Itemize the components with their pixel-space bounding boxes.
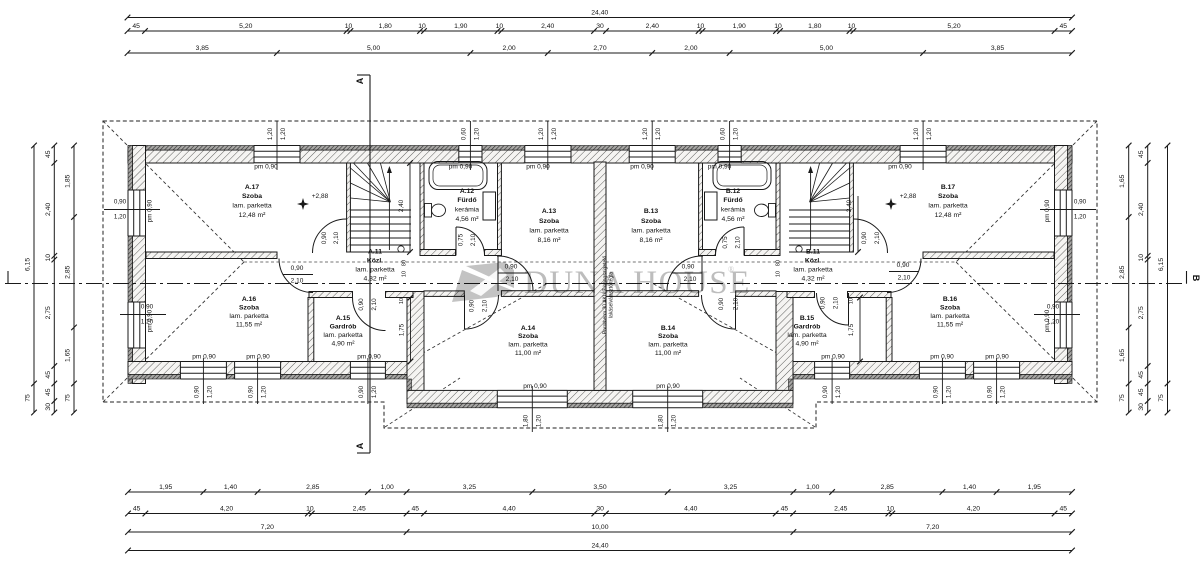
- svg-text:pm 0,90: pm 0,90: [821, 354, 845, 361]
- svg-text:1,40: 1,40: [963, 484, 976, 491]
- svg-text:pm 0,90: pm 0,90: [147, 199, 154, 222]
- wall B.13 east: [699, 163, 703, 256]
- svg-text:Szoba: Szoba: [658, 333, 678, 340]
- window dim bottom A16w1: [202, 358, 204, 404]
- svg-text:1,20: 1,20: [535, 414, 542, 427]
- window dim top A.13: [547, 121, 549, 170]
- svg-text:1,20: 1,20: [671, 414, 678, 427]
- dimension row top segments: [128, 30, 1073, 32]
- dimension row bottom wings: [128, 531, 1072, 533]
- wall A.17-A.16: [146, 252, 277, 259]
- window bath B.12 0,60: [718, 145, 741, 164]
- svg-text:Szoba: Szoba: [242, 193, 262, 200]
- svg-text:2,40: 2,40: [398, 199, 405, 212]
- window dim protrusion B14: [667, 386, 669, 432]
- bath B.12 south wall west part: [699, 250, 716, 256]
- svg-text:lam. parketta: lam. parketta: [508, 342, 548, 349]
- window bath A.12 0,60: [459, 145, 482, 164]
- svg-text:1,20: 1,20: [1074, 214, 1087, 221]
- svg-text:2,40: 2,40: [45, 203, 52, 216]
- svg-text:12,48 m²: 12,48 m²: [239, 212, 267, 219]
- svg-text:lam. parketta: lam. parketta: [928, 203, 968, 210]
- svg-text:Fürdő: Fürdő: [457, 197, 476, 204]
- svg-text:pm 0,90: pm 0,90: [656, 383, 680, 390]
- dimension col right mid: [1147, 146, 1149, 413]
- party wall Porotherm 30: [594, 162, 606, 390]
- dimension row bottom axis: [128, 491, 1072, 493]
- svg-text:10: 10: [45, 254, 52, 262]
- svg-text:1,75: 1,75: [399, 323, 406, 336]
- svg-text:10: 10: [774, 23, 782, 30]
- svg-text:10: 10: [848, 23, 856, 30]
- door A.13: [498, 256, 533, 291]
- exterior wall protrusion south: [407, 390, 793, 403]
- bath A.12 south wall west part: [420, 250, 456, 256]
- svg-text:5,00: 5,00: [367, 45, 380, 52]
- svg-text:pm 0,90: pm 0,90: [985, 354, 1009, 361]
- roof hip dashed protrusion left: [385, 378, 460, 427]
- svg-text:lam. parketta: lam. parketta: [232, 203, 272, 210]
- svg-text:0,90: 0,90: [193, 385, 200, 398]
- svg-text:2,85: 2,85: [1119, 265, 1126, 278]
- dimension row bottom 24,40: [128, 550, 1072, 552]
- window A.17 1,20: [254, 145, 300, 164]
- svg-text:2,10: 2,10: [482, 299, 489, 312]
- door B.13: [667, 256, 702, 291]
- window dim top A.17: [276, 121, 278, 170]
- svg-text:Közl.: Közl.: [367, 258, 383, 265]
- dimension col right inner: [1128, 146, 1130, 413]
- stairs B: [789, 209, 850, 211]
- svg-text:1,20: 1,20: [267, 127, 274, 140]
- svg-text:0,90: 0,90: [897, 262, 910, 269]
- dimension col right outer 6,15: [1167, 146, 1169, 413]
- svg-text:2,85: 2,85: [65, 265, 72, 278]
- insulation bottom right wing: [793, 375, 1072, 380]
- svg-text:4,90 m²: 4,90 m²: [795, 341, 819, 348]
- svg-text:24,40: 24,40: [591, 543, 608, 550]
- bath B.12 south wall east part: [745, 250, 781, 256]
- svg-text:2,10: 2,10: [371, 298, 378, 311]
- window A.13 1,20: [525, 145, 571, 164]
- svg-text:10: 10: [776, 271, 782, 277]
- svg-text:10: 10: [399, 298, 405, 304]
- svg-text:pm 0,90: pm 0,90: [888, 164, 912, 171]
- exterior wall right: [1055, 146, 1068, 384]
- window west upper 1,20: [127, 190, 146, 236]
- svg-text:1,20: 1,20: [913, 127, 920, 140]
- svg-text:4,56 m²: 4,56 m²: [455, 216, 479, 223]
- svg-text:5,00: 5,00: [820, 45, 833, 52]
- gardrob A.15 north wall east part: [386, 292, 414, 298]
- svg-text:2,85: 2,85: [881, 484, 894, 491]
- svg-text:Gardrób: Gardrób: [794, 324, 821, 331]
- roof ridge height dashed line: [244, 261, 956, 263]
- svg-text:45: 45: [45, 388, 52, 396]
- exterior wall left: [133, 146, 146, 384]
- svg-text:30: 30: [596, 506, 604, 513]
- window B.17 1,20: [900, 145, 946, 164]
- svg-text:2,40: 2,40: [1138, 203, 1145, 216]
- svg-text:Közl.: Közl.: [805, 258, 821, 265]
- svg-text:45: 45: [1060, 506, 1068, 513]
- svg-text:1,95: 1,95: [1028, 484, 1041, 491]
- svg-text:10: 10: [849, 298, 855, 304]
- dimension col left mid: [53, 146, 55, 413]
- svg-text:10: 10: [887, 506, 895, 513]
- svg-text:45: 45: [45, 150, 52, 158]
- svg-text:pm 0,90: pm 0,90: [357, 354, 381, 361]
- section line A-A: [369, 75, 371, 453]
- svg-text:4,20: 4,20: [967, 506, 980, 513]
- svg-text:1,80: 1,80: [522, 414, 529, 427]
- svg-text:1,40: 1,40: [224, 484, 237, 491]
- svg-text:4,20: 4,20: [220, 506, 233, 513]
- bath A.12 south wall east part: [485, 250, 502, 256]
- window dim top B.17: [922, 121, 924, 170]
- gardrob A.15 north wall west part: [309, 292, 353, 298]
- window dim bottom B16w1: [941, 358, 943, 404]
- svg-text:4,90 m²: 4,90 m²: [331, 341, 355, 348]
- stair west wall A: [347, 163, 351, 252]
- svg-text:1,65: 1,65: [1119, 349, 1126, 362]
- svg-text:30: 30: [1138, 403, 1145, 411]
- svg-text:1,20: 1,20: [206, 385, 213, 398]
- window dim west lower: [120, 314, 166, 316]
- svg-text:1,80: 1,80: [808, 23, 821, 30]
- wc A: [425, 204, 432, 218]
- roof valley dashed left: [407, 283, 548, 362]
- svg-text:B.17: B.17: [941, 184, 956, 191]
- svg-text:10: 10: [697, 23, 705, 30]
- svg-text:pm 0,90: pm 0,90: [192, 354, 216, 361]
- svg-text:11,00 m²: 11,00 m²: [655, 350, 682, 357]
- svg-text:3,25: 3,25: [463, 484, 476, 491]
- svg-text:2,00: 2,00: [684, 45, 697, 52]
- svg-text:1,65: 1,65: [1119, 174, 1126, 187]
- svg-text:lam. parketta: lam. parketta: [648, 342, 688, 349]
- gardrob B.15 east wall: [886, 298, 892, 362]
- svg-text:30: 30: [45, 403, 52, 411]
- stair east wall B: [850, 163, 854, 252]
- svg-text:4,40: 4,40: [502, 506, 515, 513]
- svg-text:8,16 m²: 8,16 m²: [639, 237, 663, 244]
- svg-text:DUNA HOUSE: DUNA HOUSE: [524, 265, 751, 301]
- window dim protrusion A14: [531, 386, 533, 432]
- svg-text:A.13: A.13: [542, 208, 557, 215]
- svg-text:11,00 m²: 11,00 m²: [515, 350, 542, 357]
- roof hip dashed left lower: [103, 262, 244, 402]
- svg-text:75: 75: [25, 394, 32, 402]
- svg-text:75: 75: [1158, 394, 1165, 402]
- svg-text:45: 45: [781, 506, 789, 513]
- window B.15 south 0,90: [815, 361, 850, 380]
- svg-text:1,85: 1,85: [65, 174, 72, 187]
- svg-text:pm 0,90: pm 0,90: [526, 164, 550, 171]
- svg-text:10: 10: [418, 23, 426, 30]
- svg-text:B: B: [1191, 275, 1200, 282]
- svg-text:A: A: [355, 442, 365, 449]
- svg-text:0,90: 0,90: [822, 385, 829, 398]
- window dim east lower: [1034, 314, 1080, 316]
- svg-text:1,80: 1,80: [658, 414, 665, 427]
- svg-text:A.16: A.16: [242, 296, 257, 303]
- svg-text:lam. parketta: lam. parketta: [787, 332, 827, 339]
- svg-text:1,95: 1,95: [159, 484, 172, 491]
- svg-text:11,55 m²: 11,55 m²: [236, 322, 263, 329]
- svg-text:45: 45: [1138, 371, 1145, 379]
- svg-text:0,90: 0,90: [1074, 199, 1087, 206]
- dimension col left outer 6,15: [33, 146, 35, 413]
- svg-text:Fürdő: Fürdő: [723, 197, 742, 204]
- insulation bottom left wing: [128, 375, 407, 380]
- roof hip dashed right lower: [956, 262, 1097, 402]
- window B.16 south-west 1,20: [919, 361, 965, 380]
- svg-text:B.16: B.16: [943, 296, 958, 303]
- svg-text:45: 45: [132, 23, 140, 30]
- height mark +2,88 A: [297, 198, 309, 210]
- door B.15: [817, 293, 849, 325]
- svg-text:1,20: 1,20: [473, 127, 480, 140]
- insulation top wall: [128, 146, 1072, 151]
- window dim west upper: [104, 209, 160, 211]
- svg-text:B.14: B.14: [661, 325, 676, 332]
- section line B-B: [5, 283, 1187, 285]
- gardrob dim B 1,75: [859, 298, 861, 362]
- insulation left wall: [128, 146, 133, 384]
- svg-text:2,70: 2,70: [593, 45, 606, 52]
- svg-text:3,25: 3,25: [724, 484, 737, 491]
- svg-text:pm 0,90: pm 0,90: [254, 164, 278, 171]
- svg-text:75: 75: [65, 394, 72, 402]
- svg-text:5,20: 5,20: [239, 23, 252, 30]
- svg-text:pm 0,90: pm 0,90: [523, 383, 547, 390]
- svg-text:0,60: 0,60: [720, 127, 727, 140]
- svg-text:1,20: 1,20: [261, 385, 268, 398]
- svg-text:2,10: 2,10: [898, 275, 911, 282]
- svg-text:0,90: 0,90: [358, 385, 365, 398]
- svg-text:2,40: 2,40: [846, 199, 853, 212]
- bathtub A: [429, 162, 487, 190]
- room A.13 south wall: [501, 291, 594, 297]
- svg-text:1,20: 1,20: [733, 127, 740, 140]
- svg-text:0,90: 0,90: [932, 385, 939, 398]
- svg-text:12,48 m²: 12,48 m²: [935, 212, 963, 219]
- door A.16: [279, 259, 313, 293]
- height mark +2,88 B: [885, 198, 897, 210]
- svg-text:®: ®: [728, 265, 734, 274]
- shower cabinet A: [483, 192, 496, 220]
- shower cabinet B: [705, 192, 718, 220]
- svg-text:3,50: 3,50: [593, 484, 606, 491]
- svg-text:2,45: 2,45: [353, 506, 366, 513]
- svg-text:1,90: 1,90: [454, 23, 467, 30]
- window B.14 south 1,80: [633, 390, 703, 409]
- window dim bottom B16w2: [996, 358, 998, 404]
- svg-text:5,20: 5,20: [947, 23, 960, 30]
- svg-text:1,20: 1,20: [926, 127, 933, 140]
- door bath B.12: [716, 227, 745, 256]
- bath B.12 east wall: [776, 163, 780, 256]
- stair width dim A: [409, 163, 411, 252]
- exterior wall bottom left wing: [128, 362, 407, 375]
- bath A.12 west wall: [420, 163, 424, 256]
- window east lower 1,20: [1054, 302, 1073, 348]
- door bath A.12: [456, 227, 485, 256]
- watermark logo: [452, 262, 514, 302]
- insulation protrusion east: [789, 379, 794, 403]
- room A.14 north wall: [424, 291, 464, 297]
- svg-text:0,90: 0,90: [291, 265, 304, 272]
- svg-text:7,20: 7,20: [926, 524, 939, 531]
- gardrob A.15 west wall: [308, 298, 314, 362]
- window A.16 south-east 1,20: [235, 361, 281, 380]
- bathtub B: [713, 162, 771, 190]
- roof hip dashed left upper: [103, 121, 244, 262]
- svg-text:2,40: 2,40: [541, 23, 554, 30]
- svg-text:2,10: 2,10: [735, 236, 742, 249]
- svg-text:kerámia: kerámia: [721, 207, 745, 214]
- svg-text:0,60: 0,60: [460, 127, 467, 140]
- svg-text:Szoba: Szoba: [938, 193, 958, 200]
- svg-text:Szoba: Szoba: [239, 305, 259, 312]
- svg-text:3,85: 3,85: [991, 45, 1004, 52]
- window dim top B.12: [729, 121, 731, 170]
- svg-text:Szoba: Szoba: [539, 218, 559, 225]
- svg-text:0,90: 0,90: [987, 385, 994, 398]
- exterior wall top: [128, 150, 1072, 163]
- svg-text:0,90: 0,90: [114, 199, 127, 206]
- window A.16 south-west 1,20: [180, 361, 226, 380]
- svg-text:2,45: 2,45: [834, 506, 847, 513]
- svg-text:1,75: 1,75: [848, 323, 855, 336]
- svg-text:2,10: 2,10: [874, 231, 881, 244]
- svg-text:0,90: 0,90: [141, 304, 154, 311]
- svg-text:lam. parketta: lam. parketta: [529, 228, 569, 235]
- svg-text:1,20: 1,20: [141, 319, 154, 326]
- svg-text:10: 10: [345, 23, 353, 30]
- svg-text:1,20: 1,20: [371, 385, 378, 398]
- svg-text:45: 45: [1138, 150, 1145, 158]
- svg-text:2,40: 2,40: [646, 23, 659, 30]
- svg-text:2,10: 2,10: [470, 233, 477, 246]
- svg-text:7,20: 7,20: [261, 524, 274, 531]
- room B.14 north wall: [736, 291, 776, 297]
- svg-text:pm 0,90: pm 0,90: [708, 164, 732, 171]
- stairs A: [350, 209, 411, 211]
- svg-text:80: 80: [402, 260, 408, 266]
- door A.17: [313, 219, 347, 253]
- window A.14 south 1,80: [497, 390, 567, 409]
- svg-text:1,20: 1,20: [945, 385, 952, 398]
- svg-text:lam. parketta: lam. parketta: [631, 228, 671, 235]
- svg-text:45: 45: [45, 371, 52, 379]
- insulation protrusion west: [407, 379, 412, 403]
- svg-text:4,32 m²: 4,32 m²: [363, 276, 387, 283]
- svg-text:4,32 m²: 4,32 m²: [801, 276, 825, 283]
- svg-text:lam. parketta: lam. parketta: [229, 313, 269, 320]
- svg-text:pm 0,90: pm 0,90: [630, 164, 654, 171]
- door B.16: [887, 259, 921, 293]
- svg-text:10: 10: [1138, 254, 1145, 262]
- roof hip dashed protrusion right: [740, 378, 815, 427]
- svg-text:B.11: B.11: [806, 249, 820, 256]
- window dim bottom B15: [831, 358, 833, 404]
- exterior wall protrusion east: [776, 292, 793, 404]
- window dim bottom A16w2: [257, 358, 259, 404]
- svg-text:Gardrób: Gardrób: [330, 324, 357, 331]
- dimension row top axis: [128, 52, 1073, 54]
- svg-text:1,20: 1,20: [655, 127, 662, 140]
- svg-text:1,20: 1,20: [114, 214, 127, 221]
- svg-text:2,85: 2,85: [306, 484, 319, 491]
- door A.15: [353, 298, 386, 331]
- svg-text:2,10: 2,10: [833, 296, 840, 309]
- roof hip dashed right upper: [956, 121, 1097, 262]
- svg-text:kerámia: kerámia: [455, 207, 479, 214]
- window east upper 1,20: [1054, 190, 1073, 236]
- svg-text:1,20: 1,20: [835, 385, 842, 398]
- svg-text:45: 45: [1060, 23, 1068, 30]
- svg-text:0,90: 0,90: [248, 385, 255, 398]
- svg-text:A.11: A.11: [368, 249, 382, 256]
- wall A.13 west: [498, 163, 502, 256]
- door B.14: [702, 295, 736, 329]
- svg-text:A.12: A.12: [460, 188, 475, 195]
- window dim top A.12: [469, 121, 471, 170]
- svg-text:+2,88: +2,88: [312, 193, 329, 200]
- room B.13 south wall: [606, 291, 699, 297]
- exterior wall bottom right wing: [793, 362, 1072, 375]
- svg-text:A.14: A.14: [521, 325, 536, 332]
- svg-text:A: A: [355, 77, 365, 84]
- svg-text:10: 10: [496, 23, 504, 30]
- svg-text:1,20: 1,20: [642, 127, 649, 140]
- wall B.17-B.16: [923, 252, 1054, 259]
- svg-text:45: 45: [1138, 388, 1145, 396]
- svg-text:Szoba: Szoba: [518, 333, 538, 340]
- svg-text:80: 80: [776, 260, 782, 266]
- svg-text:pm 0,90: pm 0,90: [1044, 199, 1051, 222]
- window dim bottom A15: [367, 358, 369, 404]
- svg-text:lam. parketta: lam. parketta: [323, 332, 363, 339]
- door A.14: [465, 295, 499, 329]
- roof valley dashed right: [652, 283, 793, 362]
- svg-text:0,90: 0,90: [469, 299, 476, 312]
- svg-text:B.12: B.12: [726, 188, 741, 195]
- gardrob B.15 north wall west part: [787, 292, 815, 298]
- window B.13 1,20: [629, 145, 675, 164]
- roof overhang dashed outline: [103, 121, 1097, 428]
- svg-text:6,15: 6,15: [1158, 258, 1165, 271]
- svg-text:1,90: 1,90: [733, 23, 746, 30]
- window west lower 1,20: [127, 302, 146, 348]
- dimension col left inner: [73, 146, 75, 413]
- svg-text:1,20: 1,20: [1000, 385, 1007, 398]
- svg-text:45: 45: [133, 506, 141, 513]
- svg-text:10,00: 10,00: [591, 524, 608, 531]
- svg-text:1,65: 1,65: [65, 349, 72, 362]
- svg-text:1,20: 1,20: [1047, 319, 1060, 326]
- exterior wall protrusion west: [407, 292, 424, 404]
- svg-text:0,75: 0,75: [722, 236, 729, 249]
- gardrob dim A 1,75: [410, 298, 412, 362]
- svg-text:8,16 m²: 8,16 m²: [537, 237, 561, 244]
- svg-text:pm 0,90: pm 0,90: [246, 354, 270, 361]
- svg-text:A.17: A.17: [245, 184, 260, 191]
- dimension row bottom segments: [128, 513, 1072, 515]
- gardrob B.15 north wall east part: [848, 292, 892, 298]
